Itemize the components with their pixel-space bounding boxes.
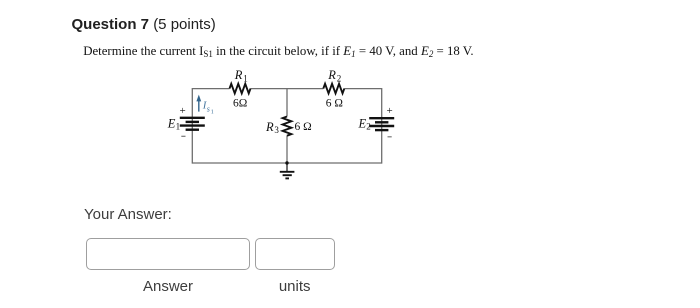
svg-text:s: s (207, 104, 210, 113)
svg-text:+: + (180, 105, 186, 117)
wire top right segment (344, 88, 381, 90)
battery E1 (180, 118, 205, 130)
svg-text:6 Ω: 6 Ω (326, 97, 343, 109)
wire bottom (192, 162, 381, 164)
label E1 (167, 116, 180, 131)
svg-text:E: E (358, 116, 367, 130)
value 6 ohm R3 (295, 121, 312, 133)
svg-text:E: E (167, 116, 176, 130)
svg-text:3: 3 (274, 125, 279, 135)
units input box (255, 238, 334, 270)
label R3 (265, 120, 279, 135)
svg-text:R: R (327, 68, 336, 82)
resistor R2 zigzag (323, 84, 344, 94)
wire top left segment (192, 88, 229, 90)
svg-text:+: + (387, 105, 393, 117)
problem statement text (83, 44, 473, 59)
battery E1 minus sign (181, 135, 185, 137)
wire left vertical (191, 88, 193, 164)
ground (280, 163, 295, 178)
svg-text:6 Ω: 6 Ω (295, 121, 312, 133)
svg-text:6Ω: 6Ω (233, 97, 247, 109)
value 6 ohm R1 (233, 97, 247, 109)
wire middle vertical lower (286, 136, 288, 164)
Answer caption (143, 278, 193, 295)
svg-text:R: R (234, 68, 243, 82)
battery E1 plus sign (180, 105, 186, 117)
wire top middle segment (251, 88, 324, 90)
node junction dot (285, 161, 288, 164)
value 6 ohm R2 (326, 97, 343, 109)
wire middle vertical upper (286, 89, 288, 117)
svg-text:1: 1 (243, 73, 248, 83)
units caption (279, 278, 311, 295)
svg-text:R: R (265, 120, 274, 134)
resistor R3 zigzag vertical (283, 117, 292, 136)
svg-text:1: 1 (211, 109, 214, 116)
battery E2 (369, 118, 394, 130)
battery E2 plus sign (387, 105, 393, 117)
resistor R1 zigzag (230, 84, 251, 94)
answer input box (86, 238, 251, 270)
battery E2 minus sign (388, 136, 392, 138)
svg-text:2: 2 (337, 73, 342, 83)
current arrow Is1 (196, 95, 201, 112)
label R1 (234, 68, 248, 83)
heading Question 7 (72, 16, 216, 33)
label E2 (358, 116, 371, 131)
svg-text:1: 1 (176, 122, 181, 132)
svg-text:2: 2 (366, 122, 371, 132)
label Is1 (202, 100, 214, 116)
label R2 (327, 68, 341, 83)
wire right vertical (381, 88, 383, 164)
Your Answer label (84, 206, 172, 223)
